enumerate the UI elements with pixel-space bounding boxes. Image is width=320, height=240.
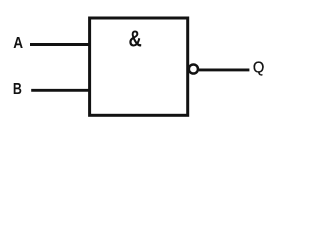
svg-text:A: A [13, 35, 23, 52]
svg-text:B: B [13, 81, 22, 99]
wire: input B [31, 89, 91, 92]
svg-text:Q: Q [253, 59, 265, 76]
NAND gate U1 body [90, 18, 188, 115]
svg-text:&: & [129, 27, 142, 52]
wire: output Q [199, 68, 250, 71]
inversion bubble on U1 output [189, 64, 198, 73]
wire: input A [30, 43, 91, 46]
